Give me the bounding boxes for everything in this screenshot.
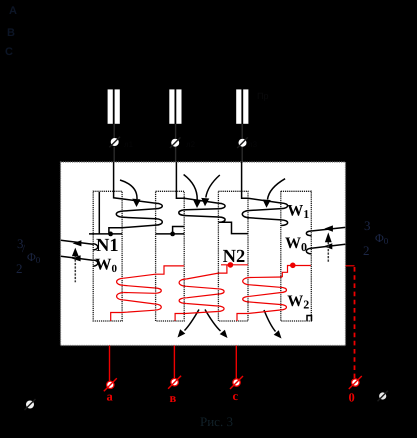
svg-text:C: C	[5, 46, 13, 58]
flux arrow bottom left	[185, 310, 200, 331]
winding loop on leg3 left (turn 2)	[219, 217, 225, 222]
svg-text:3: 3	[364, 218, 371, 233]
svg-text:N1: N1	[96, 236, 119, 256]
node on leg3 (red)	[228, 262, 234, 268]
leg4 bottom notch	[307, 316, 312, 322]
wire	[186, 209, 219, 210]
terminal v	[171, 379, 178, 386]
W2 loop leg3 left (turn 1)	[218, 289, 224, 294]
svg-text:л3: л3	[248, 140, 258, 149]
neutral wire (dashed) from W2 to terminal 0	[346, 265, 355, 267]
core leg 3	[218, 191, 248, 321]
current arrow on W0 left wire 2	[71, 255, 80, 261]
terminal b1 (slashed circle)	[171, 139, 179, 147]
wire	[186, 216, 219, 217]
svg-text:л1: л1	[124, 140, 134, 149]
flux arrow top gap2-3 left	[184, 175, 198, 200]
core leg 4	[281, 191, 312, 321]
svg-text:B: B	[7, 27, 15, 39]
current arrow on W0 right wire 1	[324, 225, 333, 231]
W2 wire	[124, 292, 155, 295]
fuse FU2	[169, 89, 174, 123]
winding loop on leg2 right	[179, 210, 186, 216]
svg-text:а: а	[107, 390, 114, 404]
current arrow on W0 right wire 2	[324, 243, 333, 249]
terminal a	[107, 381, 114, 388]
wire	[250, 218, 282, 220]
fuse FU3	[236, 89, 241, 123]
wire	[124, 217, 156, 219]
fuse FU1	[108, 89, 113, 123]
svg-text:0: 0	[349, 391, 355, 405]
spare terminal bottom left	[26, 401, 34, 409]
wire to terminal a	[109, 346, 111, 381]
winding W0 left wire 1	[61, 240, 93, 244]
W2 loop leg3 left (turn 2)	[218, 306, 224, 312]
winding N1 loop on leg2 left (turn 1)	[156, 203, 162, 209]
W2 loop leg3 right (turn 1)	[243, 278, 250, 285]
W2 wire to leg2 bottom step	[175, 312, 218, 321]
winding W0 right wire 2	[311, 244, 345, 248]
W2 wire	[124, 285, 155, 288]
W2 wire to leg3 bottom step	[237, 310, 280, 321]
W2 wire	[250, 293, 280, 297]
W2 wire gap2	[186, 273, 218, 279]
flux arrow top gap2-3 right	[206, 175, 220, 198]
core leg 1	[93, 191, 122, 321]
winding loop on leg3 left (turn 1)	[219, 203, 225, 209]
wire	[124, 209, 156, 211]
winding W2 leg2 top staircase	[156, 266, 185, 274]
svg-text:N2: N2	[223, 247, 246, 267]
winding W0 right wire 1	[311, 227, 345, 231]
winding W0 right loop 2	[306, 248, 311, 254]
W2 loop leg4 left (turn 2)	[280, 305, 286, 311]
wire stub	[175, 124, 177, 138]
transformer core box	[61, 162, 346, 346]
W2 wire	[250, 302, 280, 305]
terminal s	[233, 379, 240, 386]
W2 wire	[186, 286, 217, 289]
W2 loop leg3 right (turn 2)	[243, 296, 250, 302]
leg2 horizontal tap wire	[156, 233, 185, 235]
leg2 tap step	[173, 227, 185, 234]
wire stub	[113, 124, 115, 138]
svg-text:Пр: Пр	[257, 91, 268, 101]
wire from fuse FU1 into core	[114, 162, 156, 203]
W2 loop leg4 left (turn 1)	[280, 287, 286, 292]
W2 loop leg1 right (turn 1)	[117, 278, 124, 285]
winding W2 leg4 top wire with node	[282, 266, 311, 278]
wire	[250, 209, 282, 211]
svg-text:2: 2	[16, 261, 23, 276]
W2 loop leg2 left (turn 1)	[155, 288, 161, 293]
winding loop on leg3 right	[242, 211, 249, 218]
W2 wire	[250, 285, 280, 288]
flux arrow top gap3-4	[268, 179, 286, 200]
flux arrow bottom middle	[205, 310, 221, 332]
svg-text:в: в	[170, 391, 177, 405]
winding W1 loop on leg4 left (turn 1)	[281, 203, 288, 209]
winding W0 left wire 2	[61, 256, 93, 260]
junction node on leg1	[108, 232, 113, 237]
W2 wire gap1	[124, 274, 156, 278]
W2 wire	[124, 300, 155, 304]
W2 wire	[186, 294, 217, 298]
wire from fuse FU2 into core	[176, 162, 218, 203]
winding N1 loop on leg1 right	[116, 211, 123, 217]
terminal c1 (slashed circle)	[239, 139, 247, 147]
junction node on leg2	[170, 232, 175, 237]
flux arrow up right	[327, 242, 329, 263]
svg-text:л2: л2	[186, 140, 196, 149]
winding N1 loop on leg2 left (turn 2)	[156, 219, 162, 225]
svg-text:Рис. 3: Рис. 3	[200, 414, 233, 429]
flux arrow top gap1-2	[120, 180, 137, 199]
wire	[122, 225, 156, 228]
terminal 0	[352, 379, 359, 386]
core leg 2	[156, 191, 185, 321]
flux arrow up left	[74, 256, 76, 282]
node on leg4 (red)	[290, 263, 296, 269]
W2 loop leg2 left (turn 2)	[155, 304, 161, 310]
flux arrow bottom right	[264, 310, 276, 332]
winding W1 loop on leg4 left (turn 2)	[281, 220, 288, 226]
winding W0 right loop 1	[306, 231, 311, 236]
svg-text:2: 2	[363, 243, 370, 258]
W2 wire gap3	[250, 276, 282, 279]
current arrow on W0 left wire 1	[73, 240, 82, 246]
leg1 winding tap step	[109, 228, 122, 234]
spare terminal bottom right	[379, 392, 386, 399]
winding W0 left loop 1	[93, 244, 98, 250]
W2 loop leg2 right (turn 1)	[179, 279, 186, 286]
svg-text:с: с	[233, 389, 239, 403]
leg1 horizontal tap wire	[89, 233, 122, 235]
W2 loop leg2 right (turn 2)	[179, 298, 186, 304]
wire from fuse FU3 into core	[242, 162, 282, 203]
leg3 tap step	[219, 222, 248, 233]
W2 wire to leg1 bottom step	[111, 310, 155, 321]
wire stub	[241, 124, 243, 138]
winding W0 left loop 2	[93, 260, 98, 266]
wire to terminal s	[235, 346, 237, 379]
W2 wire	[186, 304, 217, 307]
terminal a1 (slashed circle)	[111, 138, 119, 146]
leg1 inner vertical wire	[98, 192, 100, 234]
wire to terminal v	[173, 346, 175, 379]
winding W2 leg3 top staircase with node N2	[221, 264, 248, 266]
svg-text:A: A	[9, 5, 17, 17]
W2 loop leg1 right (turn 2)	[117, 293, 124, 301]
